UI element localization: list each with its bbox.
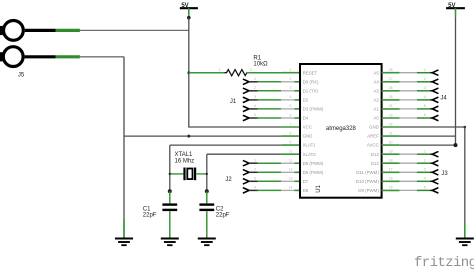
svg-text:1: 1 xyxy=(424,149,426,153)
crystal right lead xyxy=(196,173,207,175)
crystal left plate xyxy=(183,168,185,181)
svg-text:10: 10 xyxy=(289,150,293,154)
svg-text:4: 4 xyxy=(254,186,256,190)
J3 pin 1 lead (dark) xyxy=(430,153,433,155)
J3 pin 2 arrowhead xyxy=(432,160,438,166)
J3 pin 1 arrowhead xyxy=(432,151,438,157)
J4 pin 1 terminal (green) xyxy=(417,72,430,74)
J5 pin 2 stub (left edge) xyxy=(0,52,3,61)
wire 5V trunk to resistor xyxy=(189,72,225,74)
svg-text:1: 1 xyxy=(290,68,292,72)
J1 pin 3 lead (dark) xyxy=(249,99,258,101)
J4 pin 5 lead (dark) xyxy=(430,108,433,110)
pin stub right row 5 xyxy=(382,117,400,119)
svg-text:AREF: AREF xyxy=(367,134,379,139)
svg-text:25: 25 xyxy=(389,95,393,99)
J1 pin 4 lead (dark) xyxy=(249,108,258,110)
J3 pin 4 lead (dark) xyxy=(430,180,433,182)
svg-text:4: 4 xyxy=(290,95,292,99)
pin stub left row 2 xyxy=(295,90,301,92)
pin stub GND xyxy=(282,135,300,137)
svg-text:3: 3 xyxy=(424,86,426,90)
pin stub XLAT1 xyxy=(282,144,300,146)
pin stub AVCC xyxy=(382,144,400,146)
J5 pin 1 circle xyxy=(4,21,24,41)
wire resistor to RESET pin xyxy=(247,72,282,74)
svg-text:VCC: VCC xyxy=(303,125,312,130)
J2 pin 2 terminal (green) xyxy=(258,171,282,173)
svg-text:13: 13 xyxy=(289,177,293,181)
svg-text:5: 5 xyxy=(424,186,426,190)
svg-text:7: 7 xyxy=(290,122,292,126)
J1 pin 1 lead (dark) xyxy=(249,81,258,83)
wire GND left vertical (J5 pin2 down) xyxy=(123,57,125,238)
svg-text:1: 1 xyxy=(424,68,426,72)
wire J3 pin 3 from chip xyxy=(400,171,417,173)
J1 pin 1 terminal (green) xyxy=(258,81,282,83)
wire VCC row horizontal xyxy=(188,126,281,128)
wire J1 pin 1 to chip xyxy=(281,81,295,83)
wire J4 pin 5 from chip xyxy=(400,108,417,110)
svg-text:A4: A4 xyxy=(373,79,379,84)
wire J3 pin 5 from chip xyxy=(400,189,417,191)
svg-text:D8: D8 xyxy=(303,188,309,193)
svg-text:21: 21 xyxy=(389,131,393,135)
wire XLAT1 row xyxy=(170,144,282,146)
J4 pin 1 arrowhead xyxy=(432,70,438,76)
J4 pin 3 lead (dark) xyxy=(430,90,433,92)
J5 pin 1 lead (green) xyxy=(56,29,80,32)
junction dot C2 top xyxy=(205,189,209,193)
pin stub RESET xyxy=(282,72,300,74)
svg-text:J5: J5 xyxy=(18,72,25,78)
J1 pin 5 arrowhead xyxy=(243,115,249,121)
pin stub right row 2 xyxy=(382,90,400,92)
svg-text:22: 22 xyxy=(389,122,393,126)
wire crystal right vertical xyxy=(206,154,208,191)
svg-text:5: 5 xyxy=(254,113,256,117)
junction dot below left 5V xyxy=(187,16,191,20)
svg-text:6: 6 xyxy=(290,113,292,117)
J2 pin 4 arrowhead xyxy=(243,188,249,194)
J2 pin 3 terminal (green) xyxy=(258,180,282,182)
svg-text:2: 2 xyxy=(424,158,426,162)
junction nub GND corner xyxy=(464,126,467,129)
wire GND row horizontal xyxy=(124,135,282,137)
J2 pin 4 terminal (green) xyxy=(258,189,282,191)
svg-text:19: 19 xyxy=(389,150,393,154)
svg-text:J4: J4 xyxy=(440,96,447,102)
pin stub XLAT2 xyxy=(282,153,300,155)
svg-text:5: 5 xyxy=(290,104,292,108)
ground symbol under C1 xyxy=(161,239,179,246)
wire J3 pin 1 from chip xyxy=(400,153,417,155)
J2 pin 2 arrowhead xyxy=(243,170,249,176)
svg-text:8: 8 xyxy=(290,131,292,135)
svg-text:A2: A2 xyxy=(373,98,379,103)
wire J4 pin 3 from chip xyxy=(400,90,417,92)
svg-text:2: 2 xyxy=(424,77,426,81)
J4 pin 6 arrowhead xyxy=(432,115,438,121)
J3 pin 3 lead (dark) xyxy=(430,171,433,173)
ground symbol bottom-left xyxy=(115,239,133,246)
J4 pin 4 arrowhead xyxy=(432,97,438,103)
svg-text:GND: GND xyxy=(303,134,313,139)
junction dot crystal right xyxy=(206,173,208,175)
pin stub left row 5 xyxy=(295,117,301,119)
J3 pin 2 terminal (green) xyxy=(417,162,430,164)
svg-text:2: 2 xyxy=(254,86,256,90)
ground symbol bottom-right xyxy=(456,239,474,246)
svg-text:D12: D12 xyxy=(371,161,380,166)
wire AVCC horizontal xyxy=(400,144,456,146)
wire AREF horizontal xyxy=(400,135,456,137)
J4 pin 4 terminal (green) xyxy=(417,99,430,101)
svg-text:D6 (PWM): D6 (PWM) xyxy=(303,170,324,175)
J4 pin 6 lead (dark) xyxy=(430,117,433,119)
J4 pin 6 terminal (green) xyxy=(417,117,430,119)
svg-text:3: 3 xyxy=(424,168,426,172)
J4 pin 3 arrowhead xyxy=(432,88,438,94)
svg-text:A1: A1 xyxy=(373,107,379,112)
J4 pin 3 terminal (green) xyxy=(417,90,430,92)
pin stub right row 13 xyxy=(382,189,400,191)
J4 pin 5 arrowhead xyxy=(432,106,438,112)
capacitor C1 xyxy=(162,191,177,238)
junction dot on GND row xyxy=(187,135,190,138)
J3 pin 1 terminal (green) xyxy=(417,153,430,155)
svg-text:1: 1 xyxy=(254,158,256,162)
crystal body xyxy=(187,169,192,180)
junction dot crystal left xyxy=(169,173,171,175)
svg-text:fritzing: fritzing xyxy=(414,255,474,271)
wire GND left vertical green tail xyxy=(123,219,125,238)
J1 pin 4 arrowhead xyxy=(243,106,249,112)
wire 5V trunk vertical xyxy=(188,18,190,127)
pin stub GND (right) xyxy=(382,126,400,128)
J1 pin 4 terminal (green) xyxy=(258,108,282,110)
J1 pin 2 arrowhead xyxy=(243,88,249,94)
svg-text:3: 3 xyxy=(254,95,256,99)
junction dot AVCC xyxy=(454,143,458,147)
J3 pin 3 arrowhead xyxy=(432,170,438,176)
J5 pin 2 lead (black) xyxy=(25,55,56,58)
J3 pin 4 arrowhead xyxy=(432,179,438,185)
pin stub right row 12 xyxy=(382,180,400,182)
wire right 5V vertical xyxy=(455,17,457,136)
pin stub right row 9 xyxy=(382,153,400,155)
pin stub VCC xyxy=(282,126,300,128)
J4 pin 2 terminal (green) xyxy=(417,81,430,83)
pin stub left row 4 xyxy=(295,108,301,110)
svg-text:3: 3 xyxy=(254,177,256,181)
svg-text:A3: A3 xyxy=(373,88,379,93)
svg-text:22pF: 22pF xyxy=(143,212,157,218)
wire J1 pin 3 to chip xyxy=(281,99,295,101)
J1 pin 1 arrowhead xyxy=(243,79,249,85)
junction dot at RESET tee xyxy=(187,71,190,74)
J1 pin 5 terminal (green) xyxy=(258,117,282,119)
svg-text:D11 (PWM): D11 (PWM) xyxy=(356,170,379,175)
J5 pin 1 stub (left edge) xyxy=(0,26,3,35)
svg-text:6: 6 xyxy=(424,113,426,117)
power 5V (left) xyxy=(180,3,198,18)
svg-text:16 Mhz: 16 Mhz xyxy=(175,158,195,164)
wire GND right vertical xyxy=(464,127,466,238)
svg-text:5: 5 xyxy=(424,104,426,108)
svg-text:D3 (PWM): D3 (PWM) xyxy=(303,107,324,112)
resistor R1 xyxy=(225,70,249,76)
wire J4 pin 2 from chip xyxy=(400,81,417,83)
capacitor C2 xyxy=(199,191,214,238)
pin stub left row 11 xyxy=(295,171,301,173)
J3 pin 3 terminal (green) xyxy=(417,171,430,173)
J1 pin 5 lead (dark) xyxy=(249,117,258,119)
pin stub right row 1 xyxy=(382,81,400,83)
pin stub left row 10 xyxy=(295,162,301,164)
wire J4 pin 6 from chip xyxy=(400,117,417,119)
wire J3 pin 2 from chip xyxy=(400,162,417,164)
svg-text:18: 18 xyxy=(389,159,393,163)
J3 pin 5 arrowhead xyxy=(432,188,438,194)
wire J3 pin 4 from chip xyxy=(400,180,417,182)
svg-text:4: 4 xyxy=(424,95,426,99)
svg-text:D13: D13 xyxy=(371,152,380,157)
pin stub right row 4 xyxy=(382,108,400,110)
svg-text:4: 4 xyxy=(254,104,256,108)
svg-text:14: 14 xyxy=(289,186,293,190)
svg-text:D0 (RX): D0 (RX) xyxy=(303,79,319,84)
svg-text:A5: A5 xyxy=(373,70,379,75)
wire AREF vertical to AVCC dot xyxy=(455,136,457,145)
J4 pin 5 terminal (green) xyxy=(417,108,430,110)
J2 pin 1 terminal (green) xyxy=(258,162,282,164)
J5 pin 2 lead (green) xyxy=(56,55,80,58)
svg-text:23: 23 xyxy=(389,113,393,117)
svg-text:27: 27 xyxy=(389,77,393,81)
J3 pin 2 lead (dark) xyxy=(430,162,433,164)
J2 pin 1 arrowhead xyxy=(243,160,249,166)
svg-text:XLAT1: XLAT1 xyxy=(303,143,317,148)
svg-text:D9 (PWM): D9 (PWM) xyxy=(358,188,379,193)
J5 pin 2 circle xyxy=(3,47,23,67)
wire J4 pin 1 from chip xyxy=(400,72,417,74)
svg-text:RESET: RESET xyxy=(303,70,318,75)
pin stub left row 3 xyxy=(295,99,301,101)
svg-text:AVCC: AVCC xyxy=(367,143,379,148)
J5 pin 1 lead (black) xyxy=(25,29,56,32)
J3 pin 5 terminal (green) xyxy=(417,189,430,191)
svg-text:12: 12 xyxy=(289,168,293,172)
connector J5 xyxy=(0,21,80,79)
svg-text:D1 (TX): D1 (TX) xyxy=(303,88,319,93)
svg-text:26: 26 xyxy=(389,86,393,90)
wire crystal left vertical xyxy=(169,145,171,191)
wire J1 pin 4 to chip xyxy=(281,108,295,110)
pin stub right row 10 xyxy=(382,162,400,164)
svg-text:20: 20 xyxy=(389,140,393,144)
pin stub AREF xyxy=(382,135,400,137)
wire J1 pin 5 to chip xyxy=(281,117,295,119)
svg-text:2: 2 xyxy=(250,68,252,72)
svg-text:3: 3 xyxy=(290,86,292,90)
J2 pin 4 lead (dark) xyxy=(249,189,258,191)
pin stub right row 0 xyxy=(382,72,400,74)
pin stub left row 1 xyxy=(295,81,301,83)
wire J4 pin 4 from chip xyxy=(400,99,417,101)
wire GND right green tail xyxy=(464,224,466,238)
J2 pin 3 arrowhead xyxy=(243,179,249,185)
J1 pin 2 terminal (green) xyxy=(258,90,282,92)
svg-text:XLAT2: XLAT2 xyxy=(303,152,317,157)
crystal left lead xyxy=(170,173,184,175)
J3 pin 4 terminal (green) xyxy=(417,180,430,182)
J2 pin 1 lead (dark) xyxy=(249,162,258,164)
svg-text:10kΩ: 10kΩ xyxy=(253,61,268,67)
svg-text:24: 24 xyxy=(389,104,393,108)
wire J2 pin 4 to chip xyxy=(281,189,295,191)
pin stub left row 13 xyxy=(295,189,301,191)
pin stub right row 11 xyxy=(382,171,400,173)
svg-text:J1: J1 xyxy=(230,99,237,105)
J4 pin 1 lead (dark) xyxy=(430,72,433,74)
svg-text:16: 16 xyxy=(389,177,393,181)
wire XLAT2 row xyxy=(207,153,282,155)
junction dot C1 top xyxy=(168,189,172,193)
ground symbol under C2 xyxy=(198,239,216,246)
pin stub left row 12 xyxy=(295,180,301,182)
svg-text:XTAL1: XTAL1 xyxy=(175,152,194,158)
wire J1 pin 2 to chip xyxy=(281,90,295,92)
J2 pin 2 lead (dark) xyxy=(249,171,258,173)
crystal right plate xyxy=(194,168,196,181)
svg-text:A0: A0 xyxy=(373,116,379,121)
wire GND right horizontal xyxy=(400,126,465,128)
J3 pin 5 lead (dark) xyxy=(430,189,433,191)
wire J2 pin 1 to chip xyxy=(281,162,295,164)
J1 pin 2 lead (dark) xyxy=(249,90,258,92)
svg-text:22pF: 22pF xyxy=(216,212,230,218)
op-amp U1 (IC atmega328) xyxy=(300,64,382,198)
svg-text:9: 9 xyxy=(290,140,292,144)
J4 pin 2 lead (dark) xyxy=(430,81,433,83)
svg-text:4: 4 xyxy=(424,177,426,181)
J4 pin 4 lead (dark) xyxy=(430,99,433,101)
svg-text:2: 2 xyxy=(290,77,292,81)
svg-text:D5 (PWM): D5 (PWM) xyxy=(303,161,324,166)
wire J2 pin 2 to chip xyxy=(281,171,295,173)
svg-text:D10 (PWM): D10 (PWM) xyxy=(356,179,379,184)
svg-text:U1: U1 xyxy=(316,184,322,192)
svg-text:28: 28 xyxy=(389,68,393,72)
power 5V (right) xyxy=(446,3,465,17)
svg-text:atmega328: atmega328 xyxy=(326,126,357,132)
svg-text:2: 2 xyxy=(254,168,256,172)
J1 pin 3 arrowhead xyxy=(243,97,249,103)
svg-text:D4: D4 xyxy=(303,116,309,121)
svg-text:1: 1 xyxy=(219,68,221,72)
svg-text:11: 11 xyxy=(289,159,293,163)
svg-text:GND: GND xyxy=(369,125,379,130)
svg-text:15: 15 xyxy=(389,186,393,190)
svg-text:D2: D2 xyxy=(303,98,309,103)
J2 pin 3 lead (dark) xyxy=(249,180,258,182)
wire J5 pin2 horizontal xyxy=(80,56,124,58)
svg-text:1: 1 xyxy=(254,77,256,81)
J4 pin 2 arrowhead xyxy=(432,79,438,85)
svg-text:D7: D7 xyxy=(303,179,309,184)
crystal XTAL1 xyxy=(170,168,207,181)
J1 pin 3 terminal (green) xyxy=(258,99,282,101)
svg-text:J2: J2 xyxy=(225,177,232,183)
pin stub right row 3 xyxy=(382,99,400,101)
svg-text:17: 17 xyxy=(389,168,393,172)
svg-text:J3: J3 xyxy=(441,171,448,177)
wire J5 pin1 to 5V trunk xyxy=(80,29,189,31)
wire J2 pin 3 to chip xyxy=(281,180,295,182)
